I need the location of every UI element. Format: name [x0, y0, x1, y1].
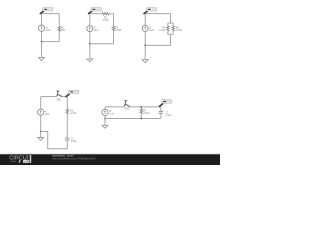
node middle bottom c5 [141, 118, 143, 120]
svg-text:SW1: SW1 [56, 100, 62, 102]
probe P5 [159, 100, 172, 107]
wire left branch upper c1 [41, 14, 43, 26]
wire left branch upper c4 [40, 97, 42, 110]
ground c5 [102, 125, 108, 128]
label R3 4.7k [115, 27, 121, 32]
svg-text:1mA: 1mA [45, 113, 50, 116]
svg-text:4.7kΩ: 4.7kΩ [102, 20, 108, 22]
node junction c4 [40, 131, 42, 133]
label SW1 [56, 100, 62, 102]
ground c4 [38, 138, 44, 141]
resistor R4 (left of pair) [167, 26, 169, 31]
wire right branch upper c3 [170, 14, 172, 24]
wire bottom jog c4 [41, 132, 68, 149]
current source I4 [38, 109, 44, 115]
resistor R7 [140, 109, 142, 114]
node junction c1 [41, 41, 43, 43]
wire bottom rail c3 [145, 44, 170, 46]
wire left branch lower c2 [89, 32, 91, 44]
logo bar [30, 155, 31, 163]
wire right branch middle c4 [66, 114, 68, 138]
svg-text:4.7kΩ: 4.7kΩ [159, 30, 165, 32]
wire right branch lower c1 [58, 31, 60, 41]
label I5 1mA [109, 111, 114, 116]
resistor R2 horizontal [102, 13, 110, 15]
logo LAB box [23, 160, 29, 163]
svg-text:4.7kΩ: 4.7kΩ [115, 30, 121, 32]
wire right branch lower c4 [66, 140, 68, 149]
svg-text:1mA: 1mA [94, 29, 99, 32]
wire bottom rail c1 [42, 41, 60, 43]
current source I5 [102, 109, 108, 115]
logo squiggle [10, 161, 16, 163]
svg-text:http://circuitlab.com/c/7bf9a2: http://circuitlab.com/c/7bf9a26ea4d3/ [52, 157, 95, 161]
wire right branch upper c4 [66, 97, 68, 109]
footer bar [0, 154, 220, 165]
label R5 4.7k [176, 27, 182, 32]
resistor R5 (right of pair) [172, 26, 174, 31]
svg-text:1.0µF: 1.0µF [165, 115, 172, 117]
probe P2 [88, 8, 101, 14]
wire middle branch lower c5 [140, 114, 142, 119]
probe P3 [144, 8, 157, 14]
svg-text:1mA: 1mA [109, 113, 114, 116]
svg-text:4.7kΩ: 4.7kΩ [143, 113, 149, 115]
wire left branch upper c2 [89, 14, 91, 26]
wire ground stem c1 [41, 42, 43, 58]
ground c2 [87, 59, 93, 62]
ground c1 [39, 58, 45, 61]
capacitor C2 [159, 111, 164, 113]
wire parallel bottom bar c3 [168, 33, 173, 35]
label C1 1.0uF [71, 139, 78, 144]
wire top rail c1 [42, 13, 60, 15]
wire parallel left lead lower c3 [167, 31, 169, 34]
probe P4 [65, 90, 79, 97]
svg-text:1mA: 1mA [46, 29, 51, 32]
capacitor C1 [65, 138, 70, 140]
label I4 1mA [45, 111, 50, 116]
wire top rail right c4 [62, 96, 68, 98]
current source I2 [87, 26, 93, 32]
wire source to node c5 [104, 116, 106, 119]
label R2 4.7k [102, 18, 108, 23]
wire middle branch upper c5 [140, 107, 142, 109]
svg-text:LAB: LAB [24, 160, 29, 164]
wire right branch lower c2 [113, 31, 115, 44]
wire top rail c3 [145, 13, 170, 15]
svg-text:1mA: 1mA [149, 29, 154, 32]
wire bottom rail c5 [105, 118, 161, 120]
switch SW1 [56, 91, 62, 97]
wire top rail left c2 [90, 13, 102, 15]
label R7 4.7k [143, 110, 149, 115]
wire ground stem c3 [144, 45, 146, 59]
probe P1 [40, 8, 53, 14]
resistor R3 [112, 26, 114, 31]
wire right branch upper c2 [113, 14, 115, 26]
svg-text:4.7kΩ: 4.7kΩ [176, 30, 182, 32]
wire corner to source c5 [104, 107, 106, 109]
label I1 1mA [46, 27, 51, 32]
label R1 1k [61, 27, 65, 32]
svg-text:SW2: SW2 [124, 109, 130, 111]
label R6 4.7k [70, 111, 76, 116]
wire ground stem c4 [40, 132, 42, 138]
wire left branch lower c4 [40, 115, 42, 131]
wire parallel left lead upper c3 [167, 23, 169, 26]
wire right branch lower c3 [170, 34, 172, 45]
wire ground stem c2 [89, 44, 91, 59]
wire left branch lower c3 [144, 31, 146, 45]
label I3 1mA [149, 28, 154, 33]
switch SW2 [124, 101, 130, 107]
current source I3 [142, 25, 148, 31]
wire right branch lower c5 [160, 113, 162, 118]
wire parallel top bar c3 [168, 22, 173, 24]
node left junction c5 [104, 118, 106, 120]
wire top rail right c5 [129, 106, 161, 108]
svg-text:1.0µF: 1.0µF [71, 141, 78, 143]
wire left branch upper c3 [144, 14, 146, 26]
wire top rail right c2 [110, 13, 114, 15]
label SW2 [124, 109, 130, 111]
svg-text:4.7kΩ: 4.7kΩ [70, 113, 76, 115]
node junction c2 [89, 43, 91, 45]
label R4 4.7k [159, 27, 166, 32]
wire left branch lower c1 [41, 31, 43, 41]
node middle top c5 [141, 106, 143, 108]
resistor R6 [66, 109, 68, 114]
label C2 1.0uF [165, 113, 172, 118]
wire right branch upper c5 [160, 107, 162, 111]
wire parallel right lead lower c3 [172, 31, 174, 34]
wire ground stem c5 [104, 119, 106, 126]
ground c3 [142, 60, 148, 63]
node junction c3 [144, 45, 146, 47]
footer top edge [0, 153, 220, 155]
wire bottom rail c2 [90, 43, 114, 45]
wire top rail left c4 [41, 96, 57, 98]
label I2 1mA [94, 28, 99, 33]
logo bolt [18, 160, 21, 164]
wire parallel right lead upper c3 [172, 23, 174, 26]
wire right branch upper c1 [58, 14, 60, 27]
current source I1 [38, 25, 44, 31]
wire top rail left c5 [105, 106, 124, 108]
svg-text:1kΩ: 1kΩ [61, 30, 65, 32]
resistor R1 [58, 26, 60, 31]
logo CIRCUIT [9, 156, 32, 162]
